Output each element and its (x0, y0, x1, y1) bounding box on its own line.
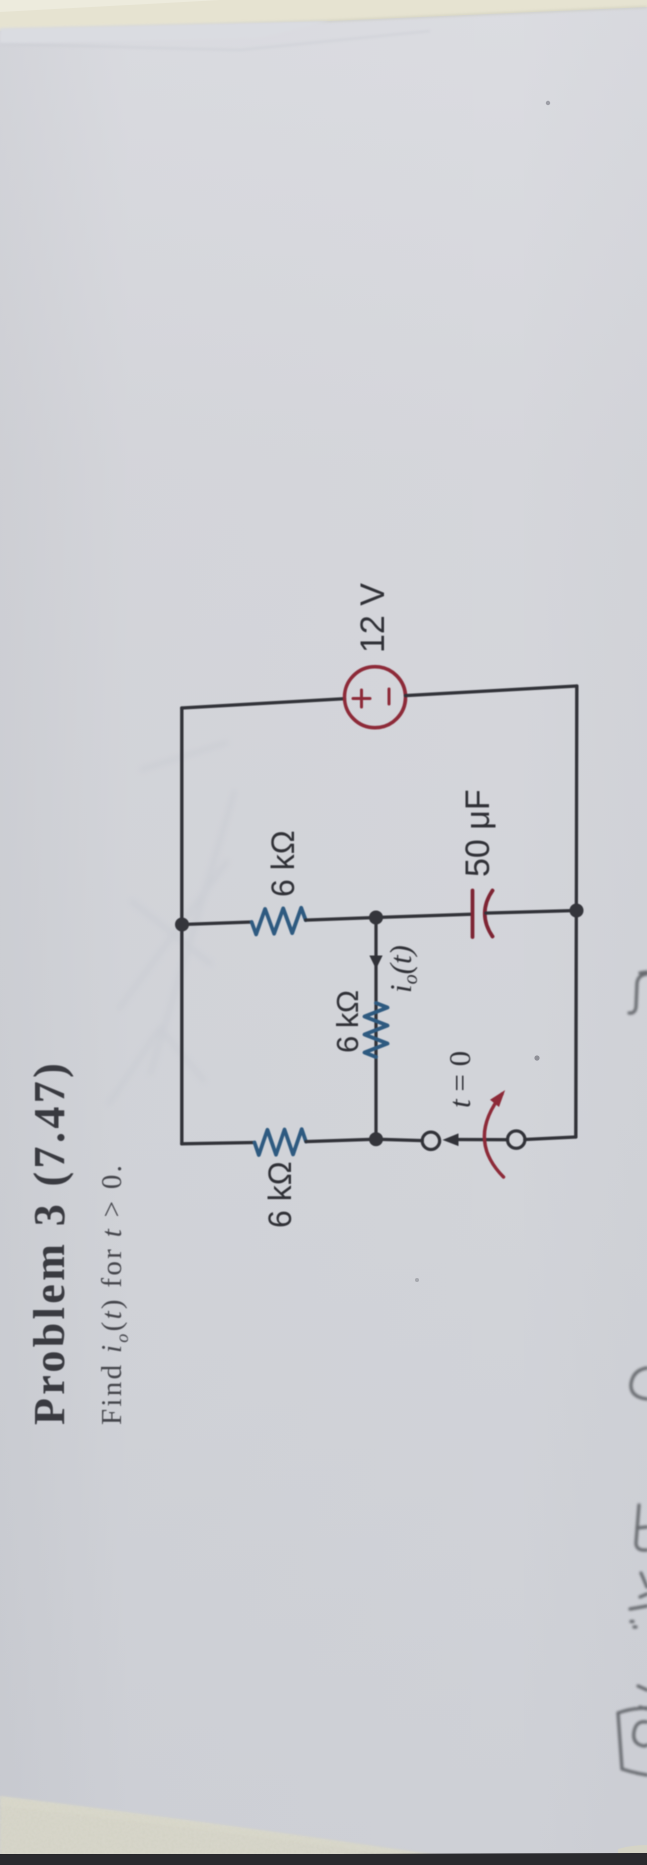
wire bottom side (576, 686, 577, 1137)
wire right side upper segment (182, 699, 345, 708)
resistor R1 6 kOhm (left branch) (255, 1129, 307, 1155)
wire middle horizontal branch (374, 918, 377, 1140)
faint bleed-through sketch marks (108, 742, 235, 1105)
wire left side lower segment (525, 1137, 576, 1140)
switch arm wire (453, 1138, 508, 1141)
switch terminal circle upper (422, 1132, 439, 1149)
current arrowhead io (black, pointing left) (369, 956, 382, 970)
wire left side below node to switch (376, 1139, 422, 1140)
node A junction dot (top of middle branch) (175, 918, 189, 932)
wire left side upper segment (182, 1143, 255, 1144)
voltage source V1 12V circle (345, 667, 406, 728)
capacitor C1 curved plate (485, 891, 493, 937)
svg-text:6 kΩ: 6 kΩ (262, 1161, 298, 1228)
wire middle branch below capacitor (486, 911, 577, 914)
switch motion arc arrowhead (490, 1086, 510, 1107)
wire right side lower segment (406, 686, 577, 696)
wire left side to middle node (306, 1139, 376, 1141)
switch motion arc (dark red) (484, 1094, 503, 1177)
wire middle branch to node (306, 918, 376, 921)
svg-text:6 kΩ: 6 kΩ (265, 830, 301, 897)
switch arrowhead (black, pointing up) (443, 1133, 459, 1146)
wire top side (180, 708, 183, 1144)
minus sign of source (388, 689, 391, 704)
wire middle branch node to capacitor (376, 914, 472, 917)
resistor R3 6 kOhm (horizontal branch) (365, 1003, 388, 1057)
svg-text:io(t): io(t) (383, 945, 422, 993)
node D junction dot (bottom of middle branch) (570, 904, 584, 918)
svg-text:50 μF: 50 μF (459, 789, 497, 877)
node B junction dot (middle branch / horizontal branch) (369, 911, 383, 925)
svg-text:t = 0: t = 0 (442, 1051, 477, 1108)
capacitor C1 50uF plate top (471, 891, 475, 938)
white page sliver under top edge (0, 21, 330, 44)
svg-text:12 V: 12 V (354, 583, 392, 653)
beige desk, bottom-right corner (618, 1845, 647, 1858)
plus sign of source (353, 690, 370, 707)
resistor R2 6 kOhm (middle branch) (252, 908, 306, 935)
switch terminal circle lower (508, 1131, 525, 1148)
beige desk, bottom-left (0, 1796, 456, 1865)
small specks (546, 101, 550, 105)
pencil handwriting cut at right edge (618, 972, 647, 1775)
wire middle branch upper (182, 922, 252, 925)
svg-text:6 kΩ: 6 kΩ (330, 990, 365, 1053)
cream desk strip at top (0, 0, 647, 31)
dark strip at very bottom (0, 1854, 647, 1865)
node C junction dot (left side / horizontal branch) (369, 1132, 383, 1146)
